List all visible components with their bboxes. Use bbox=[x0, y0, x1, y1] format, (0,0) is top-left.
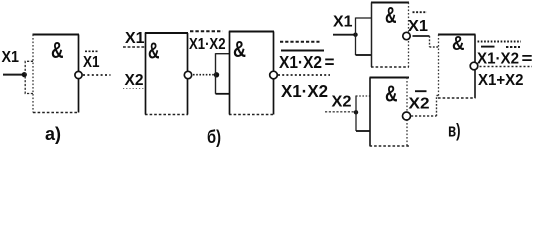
junction dot X1 (v) bbox=[353, 33, 357, 37]
svg-text:X1: X1 bbox=[408, 18, 428, 35]
wire input bracket (b second gate) bbox=[215, 53, 217, 94]
svg-text:X1·X2: X1·X2 bbox=[279, 52, 322, 72]
wire X2 lead (v) bbox=[325, 111, 356, 113]
svg-text:X1·X2: X1·X2 bbox=[477, 51, 519, 68]
svg-text:&: & bbox=[385, 81, 398, 107]
wire output dotted (a) bbox=[83, 74, 111, 76]
gate U1 inversion bubble (a) bbox=[75, 71, 82, 78]
wire input bracket (v top gate) bbox=[355, 18, 357, 56]
junction dot (b) bbox=[214, 72, 219, 77]
junction dot (a) bbox=[22, 72, 27, 77]
svg-text:X1: X1 bbox=[2, 49, 20, 66]
svg-text:=: = bbox=[325, 52, 335, 72]
wire U2 out to junction (dotted) bbox=[193, 74, 214, 76]
wire U6 output (dotted) bbox=[480, 66, 533, 68]
gate U6 box (v output gate) bbox=[438, 35, 476, 99]
label NOT X1 (v) bbox=[408, 12, 428, 35]
gate U2 inversion bubble bbox=[184, 71, 191, 78]
wire U4 out with step (v) bbox=[413, 36, 439, 47]
svg-text:X2: X2 bbox=[409, 96, 430, 113]
label NOT X1 output (a) bbox=[83, 51, 100, 71]
svg-text:X1·X2: X1·X2 bbox=[189, 36, 226, 53]
wire input bracket (v bottom gate) bbox=[355, 96, 357, 132]
gate U3 box (b second gate) bbox=[229, 32, 274, 115]
label NOT(NOTX1.NOTX2) = bbox=[477, 42, 533, 68]
svg-text:а): а) bbox=[45, 124, 61, 144]
label double-NOT(X1.X2) = bbox=[279, 42, 335, 72]
gate U2 box (b first gate) bbox=[145, 33, 188, 115]
svg-text:X2: X2 bbox=[332, 94, 352, 111]
svg-text:X1: X1 bbox=[83, 54, 100, 71]
svg-text:&: & bbox=[452, 33, 465, 55]
wire U5 out with step (v) bbox=[411, 96, 439, 117]
svg-text:в): в) bbox=[448, 121, 461, 141]
svg-text:&: & bbox=[233, 36, 246, 62]
gate U5 inversion bubble bbox=[403, 112, 411, 120]
wire X1 lead (b) bbox=[123, 46, 146, 48]
svg-text:б): б) bbox=[207, 127, 221, 147]
svg-text:X1: X1 bbox=[125, 30, 145, 47]
label NOT(X1.X2) over wire bbox=[189, 31, 226, 53]
svg-text:X1: X1 bbox=[333, 14, 353, 31]
gate U4 box (v top) bbox=[371, 3, 409, 68]
junction dot X2 (v) bbox=[354, 110, 358, 114]
svg-text:&: & bbox=[385, 2, 397, 28]
gate U6 inversion bubble bbox=[470, 62, 478, 70]
svg-text:X1+X2: X1+X2 bbox=[478, 72, 524, 89]
wire input bracket (a) bbox=[25, 61, 33, 93]
gate U3 inversion bubble bbox=[270, 71, 278, 79]
svg-text:X1·X2: X1·X2 bbox=[281, 81, 328, 101]
wire U3 output (dotted) bbox=[278, 74, 330, 76]
svg-text:X2: X2 bbox=[125, 72, 144, 89]
wire X2 lead (b) bbox=[123, 88, 146, 90]
gate U1 box (a) bbox=[33, 35, 80, 113]
svg-text:=: = bbox=[522, 51, 533, 68]
svg-text:&: & bbox=[148, 38, 160, 64]
label NOT X2 (v) bbox=[409, 91, 430, 112]
wire X1 lead (v) bbox=[333, 34, 356, 36]
svg-text:&: & bbox=[51, 37, 64, 63]
gate U5 box (v bottom) bbox=[370, 78, 410, 147]
gate U4 inversion bubble bbox=[403, 32, 410, 39]
wire X1 lead (a) bbox=[3, 74, 22, 76]
